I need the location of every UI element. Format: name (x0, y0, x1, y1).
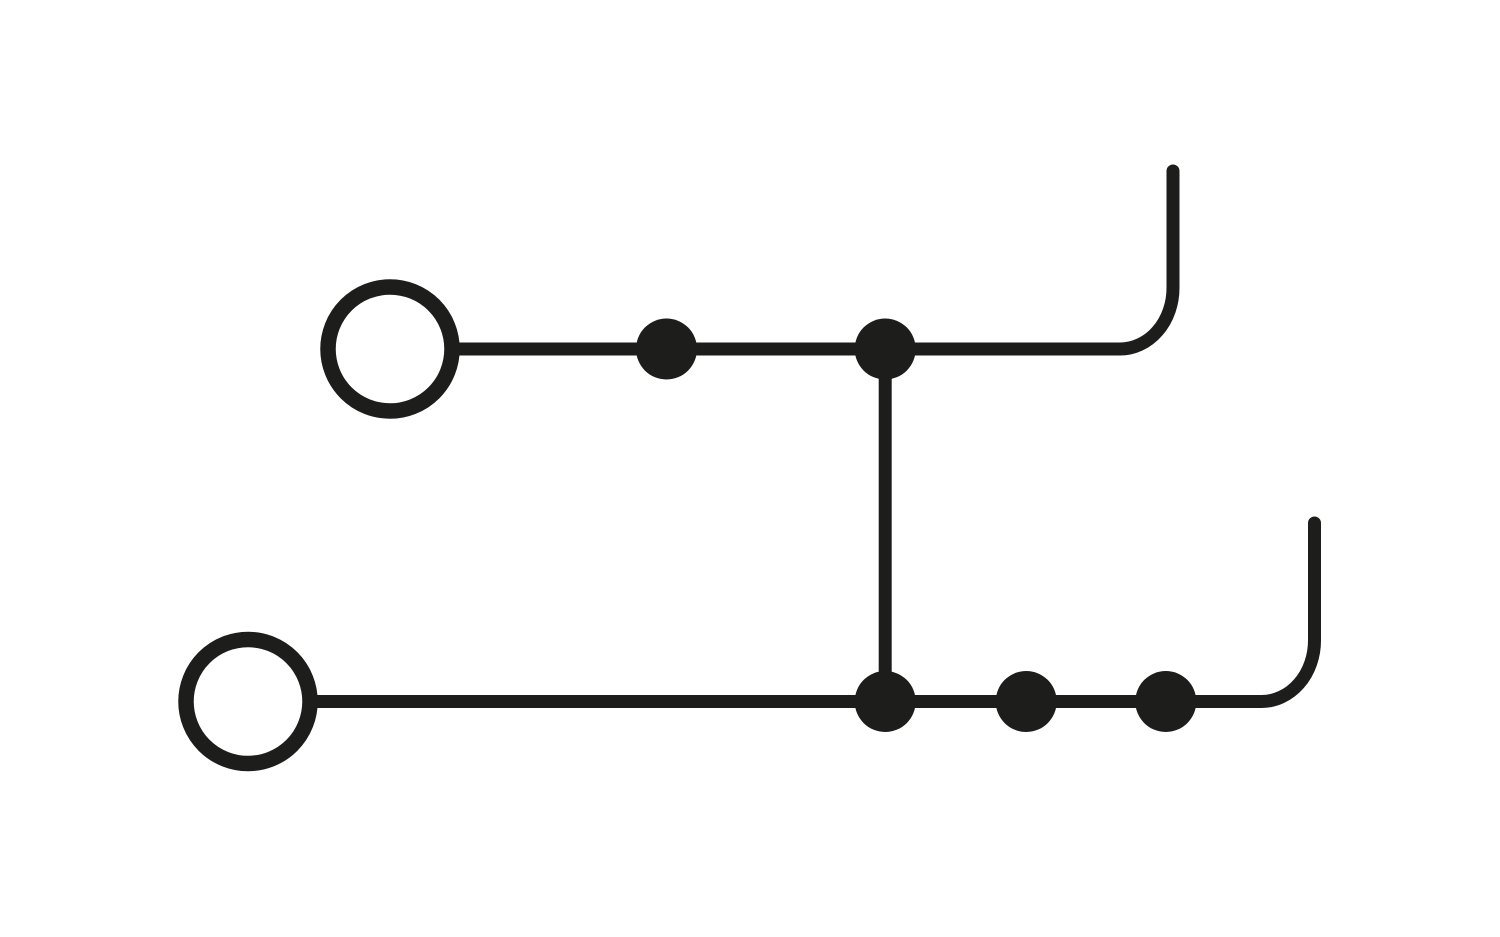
junction dot (top rail, left) (636, 319, 697, 380)
node B: junction dot at bottom of cross-connection (855, 671, 916, 732)
terminal clamp circle (top connection point) (328, 287, 452, 411)
terminal clamp circle (bottom connection point) (186, 640, 310, 764)
wire: top conductor from clamp circle, bending up at right (459, 171, 1173, 349)
wire: bottom conductor from clamp circle, bending up at right (317, 523, 1315, 702)
junction dot (bottom rail, right) (1135, 671, 1196, 732)
junction dot (bottom rail, middle) (996, 671, 1057, 732)
node A: junction dot at top of cross-connection (855, 319, 916, 380)
wire: vertical cross-connection between the two rails (879, 349, 892, 702)
